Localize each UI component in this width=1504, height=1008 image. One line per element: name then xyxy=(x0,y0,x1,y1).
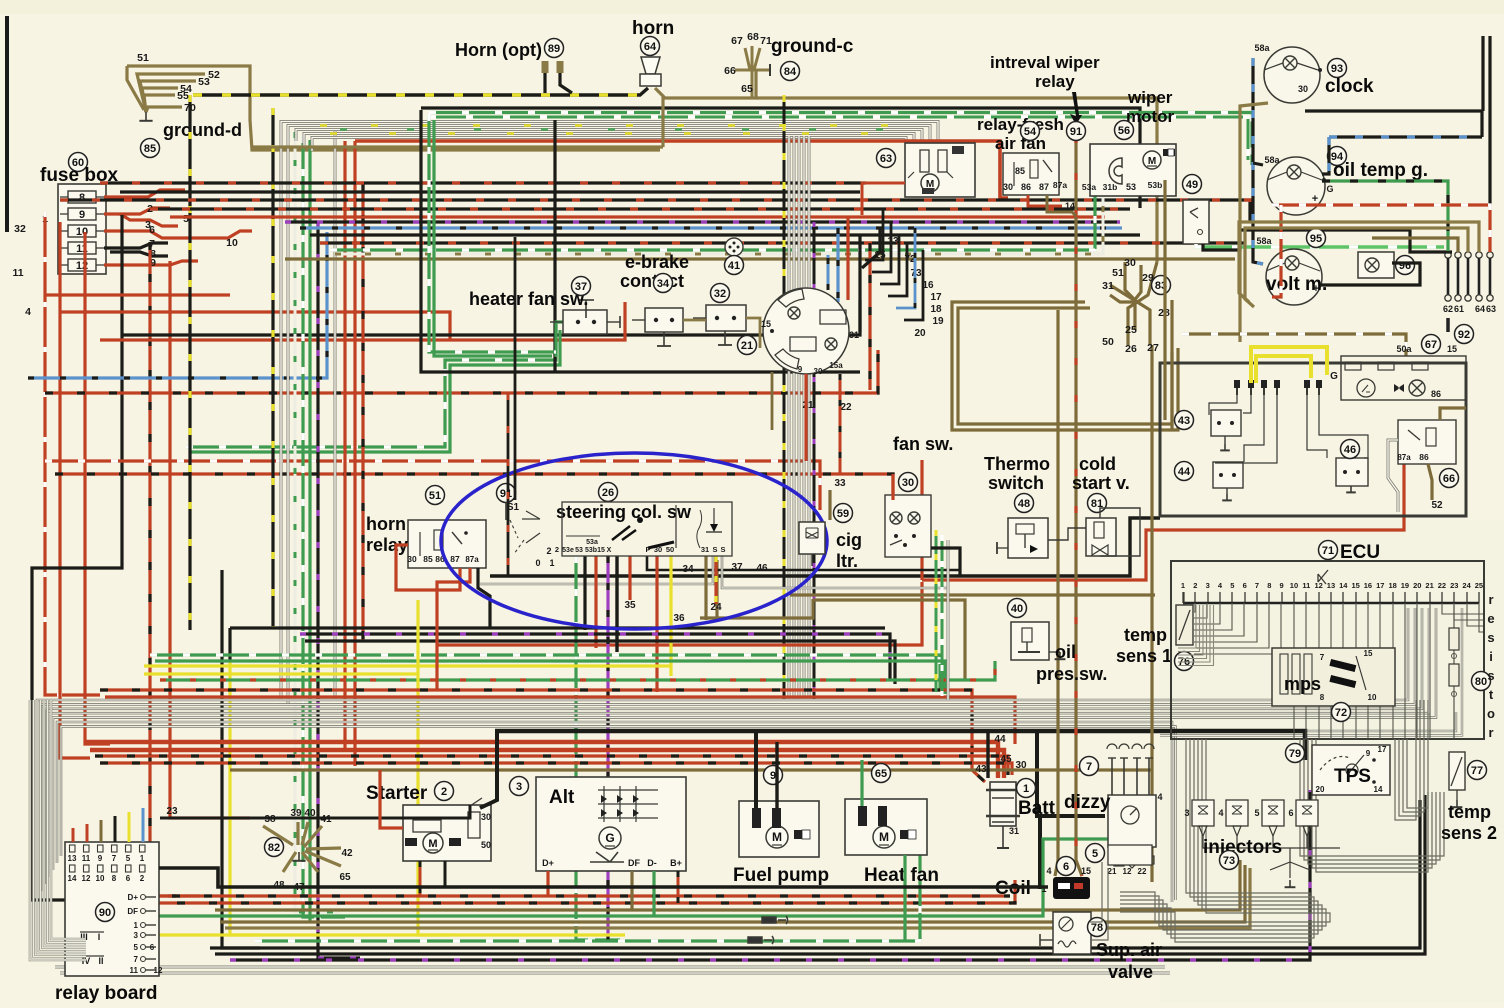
red x922 fan xyxy=(920,460,923,580)
svg-text:3: 3 xyxy=(1184,808,1189,818)
label Sup. air xyxy=(1096,940,1162,960)
svg-text:valve: valve xyxy=(1108,962,1153,982)
relay 63 box xyxy=(905,143,975,197)
svg-text:horn: horn xyxy=(632,18,674,39)
svg-text:30: 30 xyxy=(654,545,662,554)
svg-text:22: 22 xyxy=(1438,581,1446,590)
S1 feed black xyxy=(514,237,517,500)
green L y452 xyxy=(190,330,560,452)
node 26 xyxy=(599,483,618,502)
label sens 2 xyxy=(1441,823,1497,843)
svg-text:4: 4 xyxy=(1046,866,1051,876)
bottom redblk y903 xyxy=(145,880,1015,903)
S1 stub xyxy=(505,502,507,520)
svg-text:30: 30 xyxy=(1003,182,1013,192)
B2 red y217 xyxy=(170,215,1105,218)
node 5 xyxy=(1086,844,1105,863)
svg-text:27: 27 xyxy=(1147,342,1159,354)
svg-text:2: 2 xyxy=(546,546,551,556)
node 9 xyxy=(764,766,783,785)
svg-text:5: 5 xyxy=(1230,581,1234,590)
B1 grey2 xyxy=(288,126,930,151)
B2 blue y228 xyxy=(300,226,1122,229)
dizzy xyxy=(1107,744,1163,868)
svg-text:17: 17 xyxy=(1376,581,1384,590)
bottom olive y928 xyxy=(225,868,1250,928)
ign hook L4 xyxy=(880,235,899,284)
vert grey x288 xyxy=(287,128,290,704)
label ECU xyxy=(1340,542,1380,563)
ECU box xyxy=(1171,561,1484,739)
svg-text:78: 78 xyxy=(1091,922,1103,934)
junction83 brown c xyxy=(1128,262,1157,345)
svg-text:48: 48 xyxy=(1018,498,1030,510)
svg-text:Starter: Starter xyxy=(366,783,428,804)
node 40 xyxy=(1008,599,1027,618)
ground-d wire 55 xyxy=(144,95,175,112)
node 51 xyxy=(426,486,445,505)
fuses 8-12 xyxy=(60,191,104,272)
svg-text:68: 68 xyxy=(747,31,759,43)
batt wire labels xyxy=(975,734,1027,775)
ECU harness bottom loops xyxy=(1120,739,1330,942)
vert blackyellow x273 xyxy=(271,108,274,628)
svg-text:Alt: Alt xyxy=(549,787,575,808)
olive link 34-32 xyxy=(683,319,706,322)
clock 30 black xyxy=(1305,111,1482,137)
ground-c labels xyxy=(724,31,772,95)
svg-text:30: 30 xyxy=(902,477,914,489)
brown dashed top xyxy=(1182,334,1406,356)
node 54 xyxy=(1021,122,1040,141)
svg-text:sens 2: sens 2 xyxy=(1441,823,1497,843)
svg-text:8: 8 xyxy=(1267,581,1271,590)
node 94 xyxy=(1328,147,1347,166)
ign top blue xyxy=(827,255,830,290)
B2 black y235 xyxy=(310,233,1140,236)
fan sw box xyxy=(885,495,931,557)
comp 43 xyxy=(1211,410,1241,450)
svg-text:3: 3 xyxy=(516,781,522,793)
vert red x345 xyxy=(343,141,346,752)
svg-text:21: 21 xyxy=(802,400,814,411)
svg-text:intreval wiper: intreval wiper xyxy=(990,53,1100,72)
label cold xyxy=(1079,454,1116,474)
svg-text:66: 66 xyxy=(1443,473,1455,485)
B5 black2 xyxy=(305,641,895,684)
node 37 xyxy=(572,277,591,296)
steering feed grey 3 xyxy=(798,136,801,700)
fuse 8 wire xyxy=(104,190,185,197)
green G wire xyxy=(1322,181,1448,252)
bottom brown y910 xyxy=(215,860,1240,910)
S1 label xyxy=(507,502,520,513)
svg-text:63: 63 xyxy=(880,153,892,165)
svg-text:6: 6 xyxy=(149,224,155,236)
svg-text:35: 35 xyxy=(624,600,636,611)
fan sw greens2 xyxy=(941,535,944,696)
S wire grey a xyxy=(480,556,713,584)
comp43 wires xyxy=(1209,395,1368,463)
thermo switch box xyxy=(997,518,1048,558)
steering feed grey 1 xyxy=(788,136,791,700)
label horn xyxy=(632,18,674,39)
svg-text:II: II xyxy=(98,956,103,966)
svg-text:11: 11 xyxy=(130,966,139,975)
svg-text:8: 8 xyxy=(1320,693,1325,702)
svg-text:11: 11 xyxy=(82,854,91,863)
svg-text:B+: B+ xyxy=(670,858,682,868)
right black x1483 xyxy=(1481,36,1484,111)
svg-text:I: I xyxy=(98,932,101,942)
svg-text:G: G xyxy=(1326,184,1333,194)
svg-text:62: 62 xyxy=(1443,304,1453,314)
e-brake switch symbol xyxy=(632,308,683,346)
label relay(intreval) xyxy=(1035,72,1075,91)
fan sw greens xyxy=(935,530,938,692)
svg-text:5: 5 xyxy=(1092,848,1098,860)
svg-text:r: r xyxy=(1488,592,1493,607)
svg-text:1: 1 xyxy=(549,558,554,568)
svg-text:31: 31 xyxy=(1102,280,1114,292)
brown left vert2 xyxy=(1170,300,1173,430)
svg-text:6: 6 xyxy=(126,874,131,883)
svg-text:X: X xyxy=(607,547,612,554)
svg-text:9: 9 xyxy=(798,365,803,374)
B2 blackred y183 xyxy=(100,181,866,184)
ignition labels xyxy=(761,319,859,376)
label volt m. xyxy=(1266,274,1327,295)
right box frame xyxy=(1160,363,1466,516)
relay 66 xyxy=(1397,420,1456,464)
steering col sw box xyxy=(562,502,732,556)
vert red x848 xyxy=(846,217,849,300)
label cig xyxy=(836,530,862,550)
coil xyxy=(1041,866,1091,899)
thermo ground xyxy=(996,542,998,554)
node 34 xyxy=(654,274,673,293)
fuse out labels xyxy=(12,203,238,318)
node 49 xyxy=(1183,175,1202,194)
svg-text:15: 15 xyxy=(1364,649,1373,658)
vert green x310 xyxy=(308,140,311,922)
svg-text:52: 52 xyxy=(1431,500,1443,511)
node 81 xyxy=(1088,494,1107,513)
svg-text:64: 64 xyxy=(1475,304,1485,314)
52 label xyxy=(1431,500,1443,511)
svg-text:30: 30 xyxy=(481,812,491,822)
label oil temp g. xyxy=(1333,160,1428,181)
grey band extra1 xyxy=(1160,712,1456,731)
volt meter labels xyxy=(1256,236,1319,295)
B6 yellow vert x418 xyxy=(418,600,450,935)
ellipse red down x657 xyxy=(655,556,658,692)
ign hook L6 xyxy=(904,250,923,320)
node 21a xyxy=(738,336,757,355)
ECU temp sens1 resistor xyxy=(1176,592,1193,645)
svg-text:31: 31 xyxy=(849,330,859,340)
label Heat fan xyxy=(864,865,939,886)
ign hook L2 xyxy=(865,209,883,260)
highlight ellipse xyxy=(441,453,827,629)
trunk red x170 xyxy=(170,261,250,818)
trunk red left band1 xyxy=(45,293,230,296)
svg-text:89: 89 xyxy=(548,43,560,55)
svg-text:11: 11 xyxy=(1302,581,1310,590)
right black x1490 xyxy=(1488,36,1491,205)
ground-d wire 53 xyxy=(140,81,196,112)
red y749 xyxy=(90,750,1004,778)
injector rail xyxy=(1203,842,1340,887)
svg-text:14: 14 xyxy=(1374,785,1383,794)
vert grey x335 xyxy=(334,128,337,700)
heat fan feed green xyxy=(903,855,906,941)
olive right long xyxy=(756,98,1157,262)
svg-text:86: 86 xyxy=(1419,452,1429,462)
node 90 xyxy=(96,903,115,922)
brown x717 xyxy=(715,560,718,618)
ellipse black x585 xyxy=(583,556,586,630)
label Coil xyxy=(995,878,1031,899)
svg-text:17: 17 xyxy=(930,292,942,303)
relay63 M red left xyxy=(862,183,905,215)
bottom blkpurple y960 xyxy=(230,790,1310,960)
B1 grey3 xyxy=(296,130,922,151)
terminal row pins xyxy=(1234,380,1322,395)
fuse 11 wire a xyxy=(104,243,168,248)
svg-text:87a: 87a xyxy=(1397,453,1411,462)
ign top black13 xyxy=(862,228,880,268)
fuse 9 wire b xyxy=(120,214,178,226)
relay 54 box xyxy=(1003,153,1059,195)
svg-text:cig: cig xyxy=(836,530,862,550)
svg-text:9: 9 xyxy=(770,770,776,782)
svg-text:21: 21 xyxy=(1108,867,1117,876)
fuse 11 wire b xyxy=(110,252,168,256)
ign numbers right xyxy=(802,236,944,413)
svg-text:r: r xyxy=(1488,725,1493,740)
svg-text:Batt: Batt xyxy=(1018,798,1056,819)
svg-text:cold: cold xyxy=(1079,454,1116,474)
bottom green y916 xyxy=(150,839,1110,916)
node 79 xyxy=(1286,744,1305,763)
horn 60 olive xyxy=(655,70,756,98)
svg-text:start v.: start v. xyxy=(1072,473,1130,493)
vert red x355 xyxy=(353,141,356,766)
svg-text:1: 1 xyxy=(140,854,145,863)
label wiper motor1 xyxy=(1127,88,1173,107)
brown frame loop2 xyxy=(958,308,1172,424)
svg-text:volt m.: volt m. xyxy=(1266,274,1327,295)
label start v. xyxy=(1072,473,1130,493)
svg-text:14: 14 xyxy=(1339,581,1348,590)
svg-text:2: 2 xyxy=(555,545,559,554)
clock olive xyxy=(1240,103,1268,342)
svg-text:23: 23 xyxy=(166,806,178,817)
grey band 1 xyxy=(37,608,1408,898)
svg-text:dizzy: dizzy xyxy=(1064,792,1111,813)
box49 green out xyxy=(1196,244,1444,247)
svg-text:oil temp g.: oil temp g. xyxy=(1333,160,1428,181)
svg-text:50a: 50a xyxy=(1396,344,1412,354)
heater green xyxy=(556,322,565,357)
svg-text:93: 93 xyxy=(1331,63,1343,75)
label Alt xyxy=(549,787,575,808)
ECU harness right loops xyxy=(1300,700,1444,872)
node 71 xyxy=(1319,541,1338,560)
svg-text:Heat fan: Heat fan xyxy=(864,865,939,886)
vert blue x838 xyxy=(836,228,839,302)
B1 grey4 xyxy=(304,134,914,151)
svg-text:9: 9 xyxy=(79,209,85,221)
B1 grey1 xyxy=(281,122,938,149)
svg-text:65: 65 xyxy=(741,83,753,95)
svg-text:32: 32 xyxy=(714,288,726,300)
node 3 xyxy=(510,777,529,796)
svg-text:87: 87 xyxy=(1039,182,1049,192)
thermo to cold wire xyxy=(1048,528,1086,540)
svg-text:10: 10 xyxy=(226,237,238,249)
injectors group xyxy=(1184,800,1318,842)
svg-text:46: 46 xyxy=(756,563,768,574)
vert whgreen x295 xyxy=(295,132,340,912)
steering pre-switch xyxy=(510,511,555,568)
horn relay black down xyxy=(478,568,490,628)
svg-text:16: 16 xyxy=(1364,581,1372,590)
bottom black y948 xyxy=(210,800,1420,948)
node 43 xyxy=(1175,411,1194,430)
B1 olive xyxy=(252,145,663,148)
horn feed blackyellow xyxy=(193,88,648,95)
svg-text:12: 12 xyxy=(1314,581,1322,590)
svg-text:13: 13 xyxy=(1327,581,1335,590)
svg-text:50: 50 xyxy=(666,545,674,554)
svg-text:sens 1: sens 1 xyxy=(1116,646,1172,666)
svg-text:TPS: TPS xyxy=(1334,766,1371,787)
label injectors xyxy=(1203,837,1282,858)
relay board pins xyxy=(68,845,145,883)
svg-text:1: 1 xyxy=(1181,581,1185,590)
horn symbol xyxy=(640,57,661,86)
redwh y461 xyxy=(45,461,820,510)
B2 black y192 xyxy=(120,190,860,193)
olive down x663 xyxy=(661,96,664,147)
redblk y763 xyxy=(100,763,1012,775)
trunk red left band2 xyxy=(60,312,450,340)
svg-text:36: 36 xyxy=(673,613,685,624)
svg-text:Fuel pump: Fuel pump xyxy=(733,865,829,886)
svg-text:44: 44 xyxy=(1178,466,1191,478)
ground-d pin labels xyxy=(137,52,220,114)
node 30 fan xyxy=(899,473,918,492)
svg-text:7: 7 xyxy=(112,854,117,863)
ground-d wire 52 xyxy=(137,74,205,112)
node 91 mid xyxy=(497,484,516,503)
svg-text:5: 5 xyxy=(1254,808,1259,818)
label heater fan sw xyxy=(469,289,588,309)
heater fan sw symbol xyxy=(550,300,620,334)
B5 blackpurple xyxy=(300,634,890,680)
box 96 xyxy=(1358,252,1394,278)
svg-text:5: 5 xyxy=(134,943,139,952)
ellipse yellow 36 xyxy=(669,556,672,676)
node 77 xyxy=(1468,761,1487,780)
label ground-c xyxy=(771,36,854,57)
B2 blackred y200 xyxy=(60,200,1250,222)
starter stub a xyxy=(419,861,422,897)
svg-text:33: 33 xyxy=(834,478,846,489)
B6 greenred y672 xyxy=(160,661,995,680)
grey band 2 xyxy=(41,608,1415,891)
B6 greenwh y655 xyxy=(150,655,940,690)
brown x1152 long xyxy=(1150,345,1153,882)
svg-text:Sup. air: Sup. air xyxy=(1096,940,1162,960)
node 78 xyxy=(1088,918,1107,937)
svg-text:87: 87 xyxy=(450,554,460,564)
svg-text:7: 7 xyxy=(1255,581,1259,590)
red y756 xyxy=(95,756,1008,775)
ellipse red 24 xyxy=(714,556,717,604)
svg-text:77: 77 xyxy=(1471,765,1483,777)
svg-text:51: 51 xyxy=(1112,267,1124,279)
ground 82 labels xyxy=(264,808,353,893)
svg-text:15: 15 xyxy=(1351,581,1359,590)
ellipse green x576 xyxy=(576,556,620,940)
ballast resistor chain xyxy=(1449,605,1459,738)
ground-c symbol xyxy=(735,46,770,98)
svg-text:49: 49 xyxy=(1186,179,1198,191)
relay54 pin brown xyxy=(1047,195,1076,216)
ellipse 33 label xyxy=(834,478,846,489)
svg-text:19: 19 xyxy=(1401,581,1409,590)
svg-text:ground-c: ground-c xyxy=(771,36,854,57)
trunk redblk y393 xyxy=(45,350,878,393)
svg-text:59: 59 xyxy=(837,508,849,520)
clock labels xyxy=(1254,43,1308,94)
green top-down A xyxy=(429,114,556,352)
coil 1 black feed xyxy=(1038,816,1042,889)
svg-text:53: 53 xyxy=(1126,182,1136,192)
node 65b xyxy=(872,764,891,783)
svg-text:54: 54 xyxy=(1024,126,1037,138)
svg-text:ground-d: ground-d xyxy=(163,120,242,140)
connector circle xyxy=(725,238,743,256)
sup air valve xyxy=(1053,912,1091,954)
svg-text:clock: clock xyxy=(1325,76,1374,97)
svg-text:85: 85 xyxy=(1015,166,1025,176)
svg-text:86: 86 xyxy=(1431,389,1441,399)
label relay-fresh xyxy=(977,115,1064,134)
svg-text:12: 12 xyxy=(154,966,163,975)
svg-text:42: 42 xyxy=(341,848,353,859)
svg-text:21: 21 xyxy=(741,340,753,352)
label Horn (opt) xyxy=(455,40,542,60)
svg-text:53b: 53b xyxy=(1148,180,1163,190)
fuse 9 wire a xyxy=(104,208,170,214)
fan sw red frame xyxy=(891,474,894,500)
volt meter gauge xyxy=(1266,249,1322,305)
oil pres sw box xyxy=(1011,622,1060,660)
bottom connector symbols xyxy=(748,916,788,944)
svg-text:61: 61 xyxy=(1454,304,1464,314)
svg-text:t: t xyxy=(1489,687,1494,702)
svg-text:50: 50 xyxy=(1102,336,1114,348)
label clock xyxy=(1325,76,1374,97)
svg-text:31: 31 xyxy=(1009,826,1019,836)
label horn(relay) xyxy=(366,514,406,534)
red y580 xyxy=(922,462,1404,580)
oil pres ground xyxy=(1055,652,1066,659)
